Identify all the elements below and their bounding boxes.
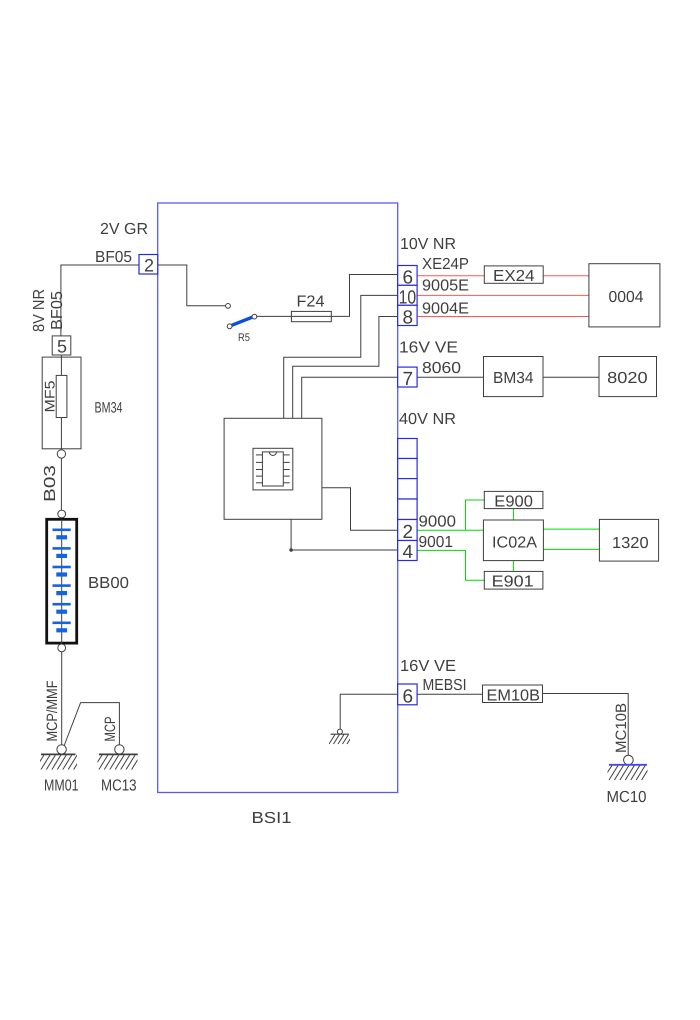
wire red pin10 to 0004 (417, 294, 589, 296)
battery bottom node (58, 644, 66, 652)
unit IC02A (483, 520, 543, 561)
svg-text:MEBSI: MEBSI (423, 677, 467, 694)
empty pin 3 (398, 479, 417, 499)
switch R5 contact b (227, 324, 232, 329)
empty pin 2 (398, 459, 417, 479)
wire EM10B to MC10 ground (543, 694, 629, 756)
wire green E900 to IC02A (512, 509, 514, 520)
svg-text:0004: 0004 (609, 289, 644, 306)
connector E900 (484, 491, 543, 508)
ECU box BSI1 (158, 203, 398, 793)
svg-text:16V VE: 16V VE (400, 658, 456, 675)
wire pin2 to switch R5 (158, 265, 226, 306)
empty pin 1 (398, 439, 417, 459)
wire BM34 to 8020 (543, 376, 599, 378)
svg-text:9005E: 9005E (422, 278, 469, 295)
svg-text:2: 2 (403, 522, 414, 543)
svg-text:E901: E901 (492, 574, 534, 591)
ground MC10 (605, 765, 651, 780)
wire pin7 to BM34 (417, 376, 483, 378)
svg-text:MCP: MCP (102, 717, 119, 742)
ground MM01 (37, 754, 83, 769)
wire MCP to MC13 (64, 703, 119, 746)
svg-text:BF05: BF05 (49, 291, 66, 330)
wire green IC02A to E901 (512, 561, 514, 572)
IC notch (269, 452, 276, 456)
wire green pin4 to E901 (417, 550, 484, 580)
svg-text:F24: F24 (297, 294, 325, 311)
wire red EX24 to 0004 (543, 275, 589, 277)
internal ground node (337, 729, 342, 734)
battery BB00 case (47, 519, 77, 643)
microcontroller block outer (224, 418, 322, 519)
wire B03 (60, 458, 62, 510)
pin 8 (398, 305, 417, 325)
wire red pin6 to EX24 (417, 275, 484, 277)
svg-text:40V NR: 40V NR (399, 411, 456, 428)
wire pin8 internal (293, 317, 398, 419)
fuse unit BM34 (42, 357, 81, 449)
svg-text:8: 8 (403, 308, 414, 329)
svg-text:9004E: 9004E (422, 301, 469, 318)
ground node MM01 (57, 745, 66, 754)
connector EX24 (484, 266, 543, 283)
pin 4 (398, 541, 417, 561)
svg-text:MC10: MC10 (607, 789, 647, 806)
fuse MF5 (56, 375, 67, 417)
svg-text:4: 4 (403, 542, 414, 563)
svg-text:5: 5 (57, 337, 67, 357)
wire chip to pin2 (322, 488, 398, 531)
svg-text:BM34: BM34 (95, 400, 123, 417)
svg-text:2: 2 (144, 256, 154, 276)
connector BM34 (484, 357, 544, 397)
unit 1320 (599, 519, 658, 561)
wire MCP/MMF (61, 652, 63, 745)
pin 7 (398, 367, 417, 387)
svg-text:6: 6 (403, 686, 414, 707)
svg-text:8060: 8060 (422, 360, 461, 377)
svg-text:16V VE: 16V VE (399, 340, 458, 357)
switch R5 blade (232, 317, 253, 325)
svg-text:8020: 8020 (607, 370, 648, 387)
svg-text:XE24P: XE24P (422, 256, 469, 273)
svg-text:BF05: BF05 (95, 249, 132, 266)
svg-text:9001: 9001 (419, 534, 454, 551)
connector 5 (52, 336, 71, 355)
wire green IC02A to 1320 lower (543, 548, 599, 550)
wire green pin2 to IC02A and E900 (417, 500, 484, 530)
wire red pin8 to 0004 (417, 316, 589, 318)
wire through BM34 (60, 355, 62, 449)
wire pin6 bottom to EM10B (417, 693, 482, 695)
svg-text:EX24: EX24 (493, 268, 535, 285)
battery center conductor (61, 519, 63, 643)
svg-text:MC10B: MC10B (613, 703, 630, 753)
wire green IC02A to 1320 upper (543, 528, 599, 530)
battery BB00 cells (53, 529, 71, 532)
svg-text:IC02A: IC02A (492, 535, 537, 552)
pin 2 (BSI1 left) (139, 255, 158, 275)
junction dot (289, 548, 293, 552)
ground node MC13 (115, 745, 124, 754)
unit 0004 (589, 264, 660, 327)
svg-text:B03: B03 (42, 465, 59, 502)
wire pin10 internal (284, 295, 398, 418)
svg-text:MF5: MF5 (42, 380, 58, 412)
svg-text:BB00: BB00 (88, 575, 129, 592)
pin 10 (398, 285, 417, 305)
microcontroller block inner frame (253, 448, 293, 490)
ground MC13 (95, 754, 141, 769)
IC chip body (262, 452, 283, 486)
wire BF05 from pin 2 to connector 5 (61, 265, 139, 336)
IC pins right (283, 455, 289, 483)
pin 2 (lower) (398, 520, 417, 541)
svg-text:9000: 9000 (419, 514, 457, 531)
svg-text:8V NR: 8V NR (31, 289, 48, 332)
wire pin7 internal (302, 377, 398, 418)
battery top node (58, 510, 66, 518)
connector EM10B (483, 685, 543, 703)
ground node MC10 (624, 755, 634, 765)
empty pin 4 (398, 499, 417, 520)
svg-text:BSI1: BSI1 (252, 810, 292, 827)
connector E901 (484, 571, 543, 589)
wire chip to pin4 (291, 519, 398, 550)
svg-text:10V NR: 10V NR (400, 236, 456, 253)
svg-text:E900: E900 (494, 494, 533, 511)
pin 6 (398, 266, 417, 286)
svg-text:BM34: BM34 (493, 370, 534, 387)
switch R5 contact a (226, 304, 231, 309)
fuse F24 (291, 311, 331, 321)
svg-text:MM01: MM01 (44, 778, 79, 795)
unit 8020 (599, 357, 657, 397)
svg-text:R5: R5 (238, 332, 250, 344)
svg-text:7: 7 (403, 369, 414, 390)
svg-text:MC13: MC13 (101, 778, 137, 795)
svg-text:MCP/MMF: MCP/MMF (44, 681, 61, 742)
svg-text:EM10B: EM10B (487, 687, 541, 704)
pin 6 (bottom) (398, 684, 417, 705)
IC pins left (256, 455, 262, 483)
svg-text:1320: 1320 (612, 535, 649, 552)
switch R5 contact c (252, 314, 257, 319)
svg-text:2V GR: 2V GR (100, 221, 148, 238)
internal ground (329, 734, 353, 744)
wire switch to fuse F24 (257, 275, 398, 317)
wire pin6 bottom internal to ground (340, 694, 398, 729)
node below BM34 (57, 450, 65, 458)
